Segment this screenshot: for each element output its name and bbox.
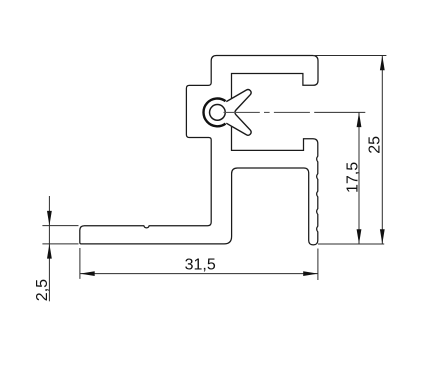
dimension line 17,5 [358,112,360,244]
profile outline [80,56,318,245]
extension lines 31,5 [80,248,318,280]
extension line top (25) [313,55,386,57]
extension lines 2,5 [42,226,78,244]
center line (dash-dot) [224,111,310,113]
boss claw arms and V notch [226,90,251,136]
svg-text:17,5: 17,5 [344,162,361,193]
svg-text:25: 25 [366,136,383,154]
center line extension to 17,5 dim [314,111,365,113]
dimension line 2,5 [48,196,50,301]
svg-text:2,5: 2,5 [34,279,51,301]
extension line bottom (25 / 17,5) [318,243,384,245]
boss inner circle [210,105,226,121]
svg-text:31,5: 31,5 [185,257,216,274]
dimension line 25 [381,56,383,245]
boss outer arc [204,99,226,127]
dimension line 31,5 [80,273,318,275]
